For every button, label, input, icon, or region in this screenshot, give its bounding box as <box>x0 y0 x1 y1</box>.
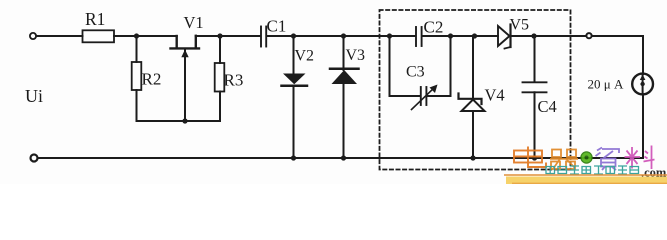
capacitor C4 bottom plate <box>523 91 547 93</box>
diode V2 bottom lead <box>293 87 295 159</box>
capacitor C3 right plate <box>425 87 427 105</box>
wire: node G to V5 <box>451 35 499 37</box>
diode V3 bottom lead <box>343 84 345 158</box>
wire: C3 branch bottom left <box>390 95 420 97</box>
meter M1 circle <box>632 74 653 95</box>
watermark underline band <box>504 174 667 176</box>
svg-text:V3: V3 <box>346 47 366 64</box>
output terminal ring <box>586 33 591 38</box>
svg-text:V2: V2 <box>295 48 315 65</box>
diode V2 triangle <box>283 74 306 85</box>
diode V5 cathode hook <box>505 47 511 49</box>
wire: C1 to dashed box <box>267 35 390 37</box>
node M (C4 bottom junction) <box>532 155 537 160</box>
wire: V1 source to C1 <box>196 35 260 37</box>
svg-text:R3: R3 <box>224 71 244 90</box>
svg-text:C3: C3 <box>406 64 425 81</box>
resistor R2 top lead <box>136 36 138 62</box>
watermark big glyph 1 (dian) <box>514 147 546 168</box>
diode V4 bottom lead <box>472 111 474 158</box>
capacitor C1 right plate <box>265 27 267 47</box>
diode V2 cathode bar <box>282 84 308 87</box>
transistor V1 gate arrowhead <box>181 50 188 58</box>
node I (C4 top junction) <box>531 33 536 38</box>
diode V2 top lead <box>293 36 295 74</box>
wire: box to output terminal <box>571 35 587 37</box>
wire: C3 branch bottom right <box>427 95 450 97</box>
capacitor C1 left plate <box>260 27 262 47</box>
diode V5 triangle <box>498 26 510 46</box>
node C (gate junction) <box>182 118 187 123</box>
svg-text:20 μ A: 20 μ A <box>588 77 624 92</box>
wire: R1 to V1 drain <box>114 35 177 37</box>
transistor V1 gate lead <box>184 50 186 121</box>
svg-text:V1: V1 <box>184 13 204 32</box>
wire: V5 to box edge <box>512 35 571 37</box>
svg-text:R1: R1 <box>85 9 105 29</box>
resistor R3 <box>215 63 225 92</box>
svg-text:C2: C2 <box>424 18 444 37</box>
watermark big glyph 4 (liao) <box>625 146 655 170</box>
watermark <box>0 0 1 1</box>
capacitor C2 left plate <box>415 27 417 46</box>
node D (V2 top junction) <box>291 33 296 38</box>
capacitor C4 bottom lead <box>534 92 536 158</box>
node A (R1/R2 junction) <box>134 33 139 38</box>
node F (C2/C3 left junction) <box>387 33 392 38</box>
resistor R3 bottom lead <box>219 92 221 122</box>
capacitor C4 top plate <box>523 81 547 83</box>
watermark big glyph 3 (zi) <box>596 148 620 171</box>
node G (C2/C3 right junction) <box>448 33 453 38</box>
transistor V1 source rise <box>195 36 197 48</box>
transistor V1 channel bar <box>171 47 200 49</box>
svg-text:V4: V4 <box>485 86 505 105</box>
capacitor C2 right plate <box>421 27 423 46</box>
node J (V2 bottom junction) <box>291 155 296 160</box>
wire: right vertical to meter <box>642 36 644 74</box>
wire: top rail terminal to R1 <box>36 35 82 37</box>
diode V4 triangle <box>462 100 485 112</box>
node E (V3 top junction) <box>341 33 346 38</box>
capacitor C3 left plate <box>420 87 422 105</box>
node L (V4 bottom junction) <box>470 155 475 160</box>
node K (V3 bottom junction) <box>341 155 346 160</box>
wire: C3 branch left vertical <box>389 36 391 96</box>
watermark teal small glyphs <box>546 166 639 174</box>
capacitor C4 top lead <box>534 36 536 82</box>
transistor V1 drain drop <box>175 36 177 48</box>
resistor R2 <box>132 62 142 90</box>
resistor R1 <box>83 30 115 42</box>
input terminal bottom <box>31 155 38 162</box>
node H (V4 top junction) <box>472 33 477 38</box>
meter M1 needle <box>642 75 644 93</box>
diode V3 cathode bar <box>330 67 359 70</box>
svg-text:C4: C4 <box>538 97 557 116</box>
diode V4 zener bar <box>459 94 482 105</box>
diode V3 triangle <box>332 70 358 84</box>
watermark green dot <box>581 152 592 163</box>
resistor R2 bottom lead <box>136 90 138 121</box>
node B (R3 top junction) <box>217 33 222 38</box>
wire: terminal to right corner <box>592 35 643 37</box>
svg-text:Ui: Ui <box>25 86 43 106</box>
wire: node F to C2 <box>390 35 416 37</box>
svg-text:V5: V5 <box>510 17 530 34</box>
wire: gate bias rail R2 to R3 <box>137 120 220 122</box>
dashed filter box <box>380 10 571 170</box>
svg-text:C1: C1 <box>267 17 287 36</box>
watermark big glyph 2 (qi) <box>550 150 578 170</box>
wire: C2 to node G <box>423 35 451 37</box>
resistor R3 top lead <box>219 36 221 63</box>
capacitor C3 trimmer arrow <box>412 88 435 110</box>
wire: meter to bottom rail <box>642 94 644 158</box>
wire: bottom rail <box>38 157 643 159</box>
wire: C3 branch right vertical <box>450 36 452 96</box>
diode V5 cathode bar <box>509 25 511 48</box>
diode V4 top lead <box>472 36 474 99</box>
svg-text:R2: R2 <box>142 70 162 89</box>
diode V3 top lead <box>343 36 345 70</box>
input terminal top <box>30 33 36 39</box>
